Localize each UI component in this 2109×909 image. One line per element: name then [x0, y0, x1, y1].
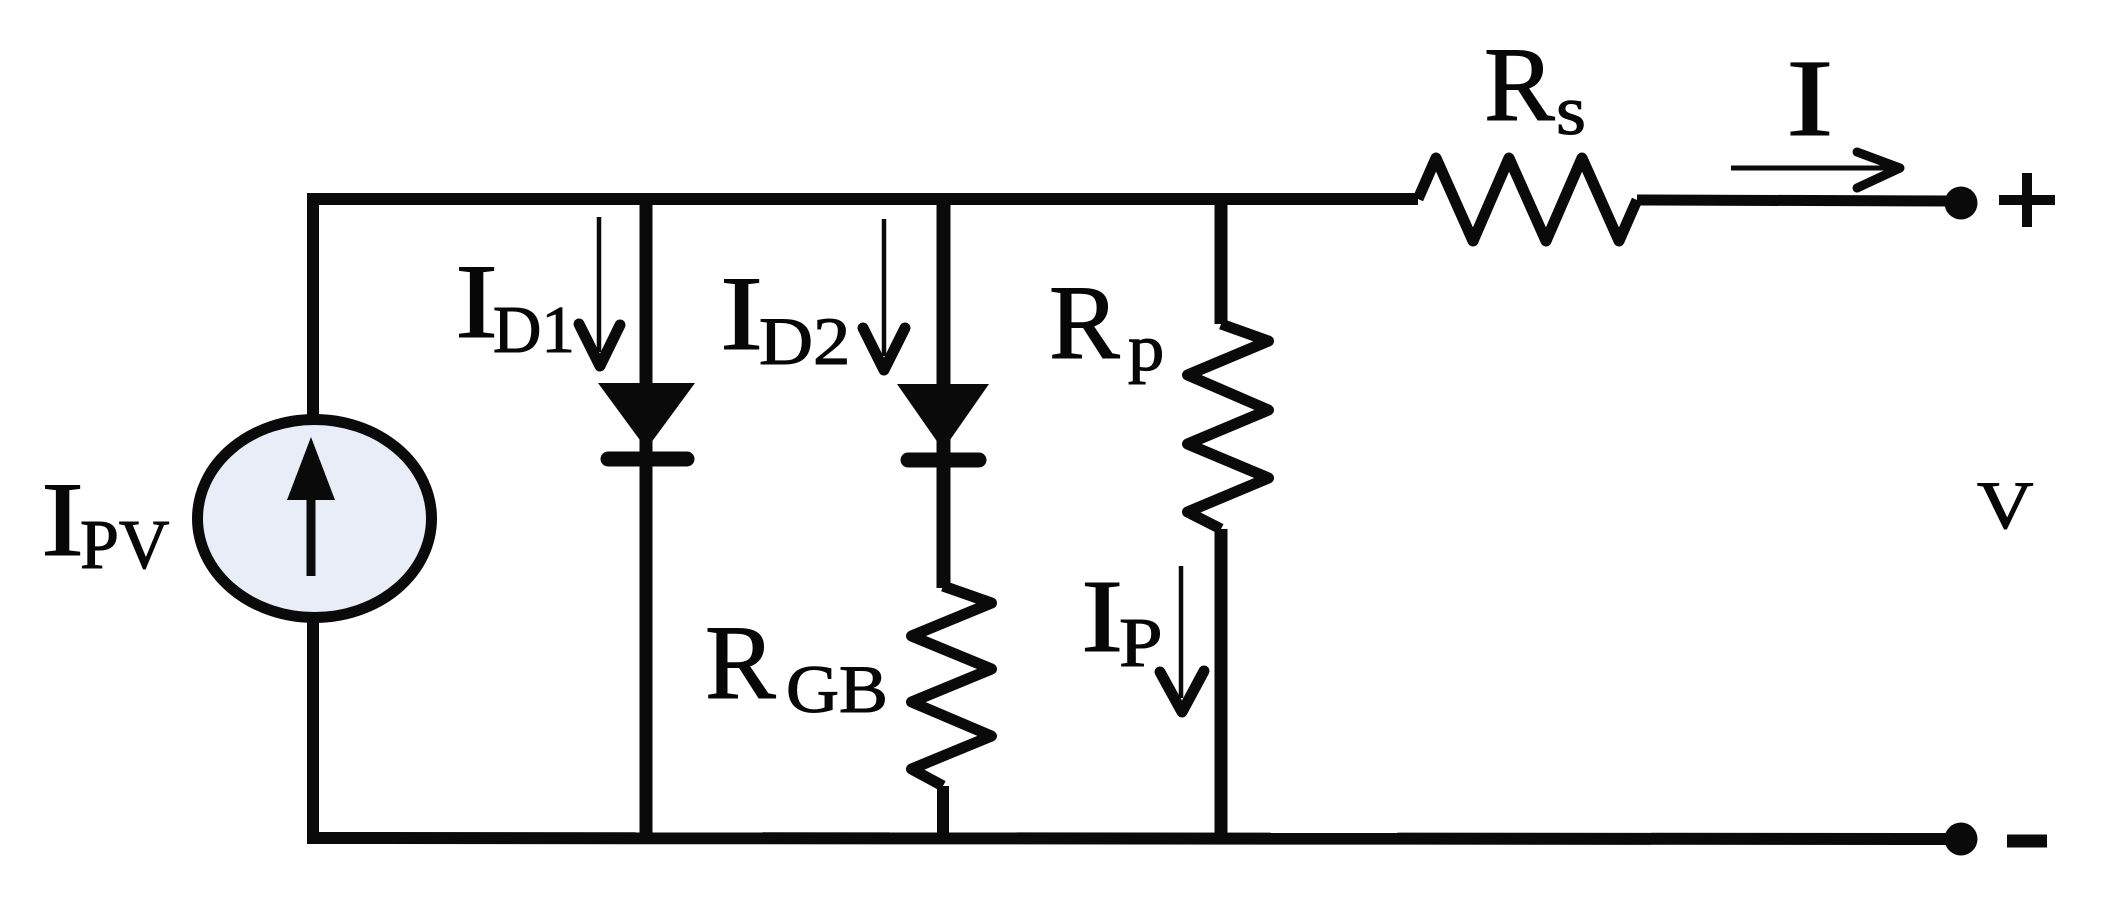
resistor RGB zigzag — [912, 586, 992, 786]
wire: diode D2 branch vertical (top bus to RGB) — [937, 193, 951, 588]
diode D2 cathode bar — [908, 453, 979, 468]
wire: resistor Rp branch vertical top — [1215, 193, 1228, 324]
current arrow I (output) — [1731, 152, 1900, 188]
wire: Rp to bottom bus — [1215, 529, 1228, 842]
minus sign — [2007, 835, 2047, 848]
wire: RGB to bottom bus — [937, 786, 949, 842]
label Rs — [1484, 26, 1586, 149]
node: positive terminal dot — [1945, 187, 1978, 220]
current source IPV (circle with upward arrow) — [198, 420, 432, 618]
label IP — [1081, 560, 1163, 682]
svg-text:R: R — [1049, 264, 1120, 381]
label ID1 — [455, 243, 575, 367]
diode D1 triangle — [598, 383, 695, 449]
svg-text:p: p — [1128, 312, 1164, 385]
svg-text:P: P — [1119, 605, 1163, 682]
svg-text:s: s — [1556, 71, 1586, 149]
svg-text:D1: D1 — [493, 293, 575, 367]
resistor Rp zigzag — [1188, 324, 1269, 529]
svg-text:GB: GB — [786, 652, 888, 727]
svg-text:PV: PV — [80, 507, 169, 584]
wire: diode D1 branch vertical — [640, 193, 653, 838]
current arrow IP — [1160, 566, 1204, 712]
plus sign — [1999, 173, 2055, 227]
current arrow ID2 — [863, 219, 905, 370]
wire: top bus right segment (Rs to + node) — [1637, 200, 1961, 201]
label IPV — [41, 461, 169, 584]
node: negative terminal dot — [1945, 823, 1978, 856]
label ID2 — [720, 255, 850, 379]
svg-text:R: R — [1484, 26, 1555, 143]
svg-text:I: I — [41, 461, 84, 578]
svg-text:I: I — [1786, 37, 1834, 159]
wire: left vertical from top bus down to current source — [307, 199, 319, 416]
label RGB — [705, 604, 888, 727]
svg-text:I: I — [1081, 560, 1123, 675]
label Rp — [1049, 264, 1164, 385]
current arrow ID1 — [579, 217, 620, 366]
wire: left vertical from current source down to bottom bus — [307, 621, 319, 844]
diode D2 triangle — [897, 384, 989, 450]
svg-text:D2: D2 — [759, 304, 850, 379]
svg-text:V: V — [1977, 468, 2034, 543]
svg-text:I: I — [455, 243, 498, 360]
wire: bottom bus — [313, 838, 1961, 839]
wire: top bus left segment (top-left corner to Rs) — [313, 199, 1418, 205]
svg-text:R: R — [705, 604, 776, 721]
resistor Rs zigzag — [1418, 158, 1637, 241]
svg-text:I: I — [720, 255, 763, 372]
diode D1 cathode bar — [608, 452, 687, 467]
